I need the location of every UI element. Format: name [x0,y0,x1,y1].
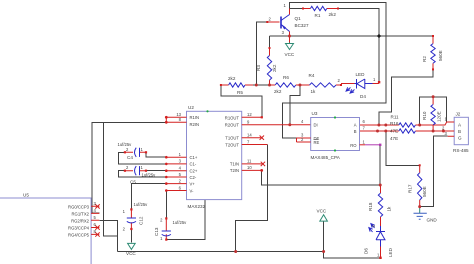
svg-text:560E: 560E [422,186,427,197]
svg-text:B: B [354,129,357,134]
svg-text:1uf/25v: 1uf/25v [118,142,133,147]
power VCC at Q1 collector [286,43,294,50]
svg-text:GND: GND [427,218,438,223]
capacitor C4 1uf/25v [124,148,147,157]
svg-text:11: 11 [247,159,252,164]
svg-text:DI: DI [314,123,318,128]
svg-text:R2OUT: R2OUT [225,122,240,127]
svg-text:47E: 47E [390,129,398,134]
svg-text:C1-: C1- [190,162,197,167]
resistor R4 1k [300,83,342,87]
svg-text:1uf/25v: 1uf/25v [173,220,188,225]
node junction RO rail [379,184,382,187]
svg-text:C4: C4 [127,155,133,160]
svg-text:RG2/RX2: RG2/RX2 [71,218,90,223]
svg-text:R18: R18 [368,202,373,211]
svg-text:2k2: 2k2 [228,76,236,81]
svg-text:RS-485: RS-485 [453,148,469,153]
svg-text:T1OUT: T1OUT [225,136,239,141]
wire U5 RX pin to bottom rail [99,220,117,251]
wire R1 line left segment [290,8,304,10]
U5 pin stubs with nc marks [91,204,100,237]
wire VCC arrow stub bottom right [323,221,325,251]
resistor R3 2k2 vertical [267,47,271,85]
svg-text:B: B [458,129,461,134]
svg-text:R5: R5 [237,90,243,95]
svg-text:G: G [458,136,462,141]
node junctions RS485 A row [377,124,380,127]
wire R1 line right segment to LED D4 anode [338,9,379,82]
node junction R2OUT-DI [288,123,291,126]
svg-text:T1IN: T1IN [230,162,239,167]
wire R10 termination loop [420,97,447,125]
label U2 right pin numbers [247,112,252,170]
svg-text:RG3/CCP4: RG3/CCP4 [68,226,90,231]
svg-text:RG4/CCP5: RG4/CCP5 [68,232,90,237]
wire RO riser [379,145,381,185]
svg-text:C5: C5 [130,179,136,184]
resistor R18 1k vertical [378,185,382,222]
svg-text:R1IN: R1IN [190,115,200,120]
label U2 left pin numbers [176,112,181,190]
node junction T2OUT bottom rail [234,250,237,253]
led D4 [341,79,380,93]
svg-text:14: 14 [247,133,252,138]
wire T2OUT staircase to bottom rail [236,145,268,252]
svg-text:RG0/CCP3: RG0/CCP3 [68,204,90,209]
power VCC at C12 [128,243,136,249]
svg-text:R2: R2 [422,56,427,62]
svg-text:U3: U3 [312,111,318,116]
svg-text:C2-: C2- [190,175,197,180]
svg-text:MAX232: MAX232 [188,204,206,209]
wire V- to C13 top [165,191,167,219]
wire B row to R17 top [386,131,420,165]
wire C4 pos to C1+ row [146,152,166,157]
svg-text:J2: J2 [456,112,461,117]
svg-text:10: 10 [247,165,252,170]
svg-text:RO: RO [350,143,357,148]
wire VCC rail horizontal to R2 top [270,35,434,37]
svg-text:T2IN: T2IN [230,168,239,173]
svg-text:R17: R17 [408,184,413,193]
capacitor C5 1uf/25v [124,166,147,175]
led D6 vertical [369,222,385,260]
svg-text:12: 12 [247,112,252,117]
node junction collector-vcc rail [288,35,291,38]
label U5 pin numbers [94,201,97,234]
svg-text:1uf/25v: 1uf/25v [142,173,157,178]
ground GND [414,207,427,220]
svg-text:R10: R10 [422,111,427,120]
svg-text:V-: V- [190,188,195,193]
svg-text:A: A [354,123,357,128]
transistor Q1 BC327 [266,9,289,43]
label U5 pin names [68,204,90,237]
wire R1IN branch vertical [104,122,118,236]
svg-text:1k: 1k [311,89,317,94]
resistor R11 47E [360,122,455,127]
label U3 pin numbers [301,119,366,144]
svg-text:C13: C13 [154,227,159,236]
svg-text:R16: R16 [390,121,399,126]
resistor R5 2k2 [220,83,253,87]
svg-text:D4: D4 [360,94,366,99]
svg-text:C12: C12 [139,216,144,225]
wire C13 bottom to U2 gnd [166,200,205,240]
wire C12 bottom to VCC symbol [130,229,132,243]
node junction R17 bottom [418,205,421,208]
IC U3 MAX485 box [311,116,360,151]
svg-text:R1OUT: R1OUT [225,115,240,120]
IC U2 MAX232 box [187,110,242,199]
connector J2 box [443,117,468,144]
node junction R1-vert x VCC rail [377,34,380,37]
wire C5 neg to C2- row [119,171,167,177]
power VCC arrow bottom [320,215,328,221]
label U3 pin names [314,123,320,146]
label U2 left pin names [190,115,200,193]
resistor R16 47E [360,129,455,133]
node junctions RS485 B row [376,130,379,133]
U3 pin stubs [297,138,382,146]
wire D6 bottom to VCC rail [324,252,381,258]
node junction R1OUT corner [261,116,263,118]
svg-text:R1: R1 [315,13,321,18]
svg-text:Q1: Q1 [295,16,302,21]
svg-text:C2+: C2+ [190,168,198,173]
svg-text:C1+: C1+ [190,155,198,160]
wire Q1 collector VCC stub [289,36,291,43]
svg-text:D6: D6 [364,248,369,254]
U2 pin stubs right [242,117,311,172]
svg-text:560E: 560E [438,50,443,61]
svg-text:2k2: 2k2 [272,64,277,72]
svg-text:R11: R11 [391,114,400,119]
node junction VCC bottom [322,250,325,253]
wire Q1 base to R5 node [256,22,267,85]
svg-text:MAX485_CPA: MAX485_CPA [311,155,341,160]
wire J2 G to GND [420,136,448,206]
resistor R1 2k2 [302,6,339,10]
wire C12 top to V+ row [131,184,166,210]
U2 pin stubs left [165,116,187,192]
svg-text:1k: 1k [387,206,392,212]
wire bottom rail RX [118,251,324,253]
svg-text:LED: LED [356,72,366,77]
wire R6 R4 node down to DI row [290,85,300,125]
wire R3 top from VCC rail [269,36,271,48]
svg-text:R6: R6 [283,75,289,80]
svg-text:RE: RE [314,140,320,145]
svg-text:R3: R3 [256,65,261,71]
wire R2IN long wire [92,122,166,213]
wire R5 row segments [251,84,268,86]
capacitor C13 1uf/25v vertical [162,217,171,240]
svg-text:120E: 120E [437,111,442,122]
wire T2IN drop to RO rail [262,170,381,185]
svg-text:RG1/TX2: RG1/TX2 [72,211,90,216]
svg-text:BC327: BC327 [295,23,309,28]
resistor R6 2k2 [268,83,300,87]
svg-text:VCC: VCC [317,209,327,214]
wire R5 left to R1OUT riser [221,85,262,117]
svg-text:V+: V+ [190,181,196,186]
svg-text:VCC: VCC [126,251,136,256]
resistor R10 120E vertical [431,97,435,131]
wire R2 bottom route to RS485 A row [379,69,433,124]
svg-text:U2: U2 [188,105,194,110]
svg-text:LED: LED [388,247,393,257]
node junction R10 top [432,95,435,98]
wire C4 neg to C1- row [119,152,167,164]
svg-text:1uf/25v: 1uf/25v [134,202,149,207]
label U2 right pin names [225,115,240,173]
IC U5 PIC box [0,198,91,264]
resistor R2 560E vertical [431,35,435,70]
svg-text:R4: R4 [309,73,315,78]
svg-text:R2IN: R2IN [190,122,200,127]
svg-text:2k2: 2k2 [329,12,337,17]
wire Q1 emitter outer loop to U3 DE [283,3,386,139]
node junction R5 nodes [255,84,258,87]
capacitor C12 1uf/25v vertical [127,208,136,230]
svg-text:47E: 47E [390,136,398,141]
svg-text:U5: U5 [23,193,29,198]
svg-text:T2OUT: T2OUT [225,142,239,147]
wire C5 pos to C2+ row [146,170,166,172]
svg-text:VCC: VCC [285,52,295,57]
resistor R17 560E vertical [418,164,422,207]
svg-text:2k2: 2k2 [274,89,282,94]
